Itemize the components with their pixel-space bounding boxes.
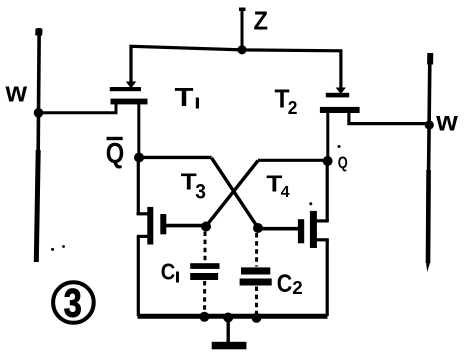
label C2 — [277, 270, 303, 298]
svg-text:2: 2 — [292, 278, 303, 298]
svg-text:3: 3 — [64, 282, 82, 326]
node T3-gate/C1 junction — [201, 222, 211, 232]
wire Q horizontal — [258, 159, 328, 162]
node W-left bus line — [36, 28, 39, 262]
capacitor C2 — [240, 233, 272, 315]
capacitor C1 — [190, 232, 219, 315]
wire cross-couple Qbar to T4 gate (diagonal) — [212, 158, 259, 228]
svg-text:3: 3 — [195, 181, 206, 204]
svg-text:4: 4 — [281, 184, 290, 201]
transistor T3 — [137, 157, 207, 316]
transistor T4 — [258, 161, 329, 316]
svg-text:Q: Q — [338, 153, 348, 172]
wire bottom rail — [138, 314, 328, 319]
node C1 bottom junction — [199, 312, 209, 322]
label T2 — [275, 83, 298, 118]
scan specks — [51, 145, 340, 251]
svg-text:C: C — [161, 258, 176, 284]
svg-text:w: w — [435, 106, 458, 137]
svg-text:Q: Q — [106, 138, 125, 170]
node Q — [323, 156, 333, 166]
node Z junction dot — [237, 45, 246, 54]
wire Z lead — [241, 10, 244, 50]
junction dot W-right — [425, 120, 434, 129]
svg-text:C: C — [277, 270, 293, 298]
svg-text:2: 2 — [288, 98, 298, 118]
svg-text:Z: Z — [254, 6, 269, 36]
node T4-gate/C2 junction — [253, 223, 263, 233]
label Qbar — [106, 137, 125, 170]
node W-right bus line — [428, 53, 430, 263]
node C2 bottom junction — [252, 313, 262, 323]
ground — [212, 313, 247, 350]
transistor T2 — [320, 88, 429, 162]
junction dot W-left — [34, 108, 44, 118]
label T3 — [181, 169, 206, 204]
transistor T1 — [110, 82, 148, 158]
label C1 — [161, 258, 179, 284]
label T4 — [266, 170, 289, 201]
wire top rail (Z rail) — [131, 46, 341, 92]
wire Qbar horizontal — [139, 156, 212, 159]
wire W-left to T1 gate — [39, 104, 117, 113]
wire cross-couple Q to T3 gate (diagonal) — [206, 161, 258, 227]
label T1 — [175, 82, 200, 112]
node Qbar — [134, 153, 144, 163]
figure number circled 3 — [53, 282, 94, 326]
svg-text:w: w — [5, 77, 28, 109]
svg-text:T: T — [175, 82, 194, 112]
